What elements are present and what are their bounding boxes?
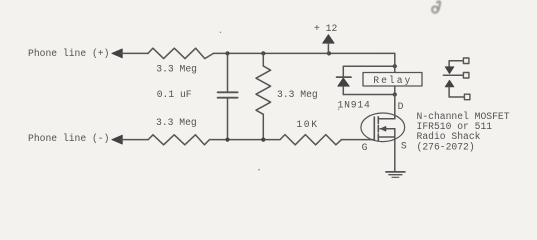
wire: R4 top lead: [262, 53, 264, 66]
transistor Q1 drain lead inside: [378, 118, 395, 120]
transistor Q1 channel segments: [377, 117, 379, 141]
junction: top rail / C1: [225, 51, 229, 55]
wire: +12 stub: [327, 43, 329, 53]
terminal arrow: phone line (-): [112, 135, 123, 144]
terminal square: bottom contact: [464, 94, 470, 100]
svg-text:Phone line (+): Phone line (+): [28, 48, 109, 59]
junction: top rail / +12: [327, 51, 331, 55]
svg-text:1N914: 1N914: [338, 99, 371, 110]
svg-text:3.3 Meg: 3.3 Meg: [156, 63, 197, 74]
junction: drain line / diode top: [393, 64, 397, 68]
wire: C1 top lead: [227, 53, 229, 91]
terminal arrow: phone line (+): [112, 49, 123, 58]
svg-text:+ 12: + 12: [314, 23, 337, 34]
transistor Q1 body circle: [361, 113, 405, 142]
wire: source down to ground: [394, 129, 396, 172]
junction: top rail / R4: [261, 51, 265, 55]
resistor R3 10K (gate series): [280, 135, 342, 145]
transistor Q1 body lead: [380, 128, 395, 130]
resistor R1 3.3 Meg (top series): [148, 48, 213, 58]
junction: drain line / diode bottom: [393, 92, 397, 96]
svg-text:0.1 uF: 0.1 uF: [157, 89, 192, 100]
junction: bottom rail / R4: [261, 138, 265, 142]
wire: drain lead down to Q1: [394, 95, 396, 119]
relay contact arm (up arrow): [445, 80, 454, 87]
wire: bottom rail from R2 to R3: [210, 139, 281, 141]
ground symbol: [386, 172, 405, 177]
svg-text:S: S: [401, 141, 407, 152]
svg-text:(276-2072): (276-2072): [417, 141, 475, 152]
wire: C1 bottom lead: [227, 98, 229, 139]
svg-text:Phone line (-): Phone line (-): [28, 133, 109, 144]
wire: top rail from R1 to drain corner: [213, 52, 394, 54]
power arrow: +12 supply: [323, 35, 335, 44]
terminal square: top contact: [463, 58, 469, 64]
resistor R2 3.3 Meg (bottom series): [148, 135, 209, 145]
capacitor C1 plates: [218, 92, 238, 97]
wire: relay loop top horizontal: [343, 65, 395, 67]
resistor R4 3.3 Meg (vertical shunt): [256, 66, 271, 114]
diode D1 bottom lead: [342, 86, 344, 94]
wire: contact NO terminal lead: [449, 87, 464, 97]
diode D1 anode triangle: [338, 78, 350, 86]
wire: +12 rail corner down to relay: [394, 53, 396, 66]
transistor Q1 source lead inside: [378, 136, 395, 138]
stray ink speck 3: [338, 109, 340, 111]
relay K1 coil box: [363, 73, 422, 87]
svg-text:10K: 10K: [296, 119, 318, 130]
stray ink speck 1: [220, 32, 222, 34]
wire: relay top stub: [394, 66, 396, 72]
svg-text:3.3 Meg: 3.3 Meg: [277, 89, 318, 100]
paper background: [0, 0, 537, 179]
wire: bottom rail from arrow to R2: [121, 139, 148, 141]
relay contact arm (down arrow): [445, 67, 454, 74]
wire: R4 bottom lead: [262, 114, 264, 139]
diode D1 1N914 top lead: [342, 66, 344, 76]
wire: gate lead into Q1: [342, 139, 375, 141]
svg-text:3.3 Meg: 3.3 Meg: [156, 117, 197, 128]
diode D1 cathode bar: [337, 76, 351, 78]
junction: bottom rail / C1: [225, 138, 229, 142]
relay contact common bar: [443, 74, 463, 76]
wire: relay bottom stub: [394, 86, 396, 95]
transistor Q1 body arrow: [380, 126, 386, 131]
svg-text:D: D: [398, 101, 404, 112]
wire: contact NC terminal lead: [449, 61, 463, 67]
wire: relay loop bottom horizontal: [343, 94, 395, 96]
svg-text:G: G: [362, 142, 368, 153]
pen smudge artifact top right: [432, 2, 440, 13]
transistor Q1 gate bar: [373, 117, 375, 140]
terminal square: middle contact: [463, 73, 469, 79]
svg-text:Relay: Relay: [373, 75, 412, 86]
wire: top rail from arrow to R1: [121, 52, 148, 54]
stray ink speck 2: [258, 169, 260, 171]
